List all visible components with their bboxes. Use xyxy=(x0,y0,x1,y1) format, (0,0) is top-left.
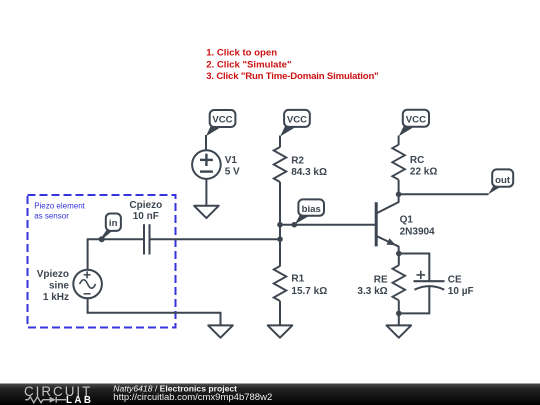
wire emitter to RE xyxy=(398,254,400,266)
svg-text:2N3904: 2N3904 xyxy=(400,226,435,237)
capacitor Cpiezo xyxy=(144,224,150,254)
logo resistor-diode glyph xyxy=(25,397,66,403)
wire Vpiezo to bottom xyxy=(87,298,89,313)
footer bar xyxy=(0,384,540,405)
wire collector lead xyxy=(398,194,400,202)
svg-text:LAB: LAB xyxy=(66,395,93,405)
svg-text:in: in xyxy=(109,218,118,229)
voltage source Vpiezo xyxy=(73,270,102,299)
svg-text:R1: R1 xyxy=(291,274,304,285)
resistor R1 xyxy=(274,266,287,301)
wire RE to bottom node xyxy=(398,300,400,313)
wire Cpiezo to junction xyxy=(150,238,281,240)
svg-text:CE: CE xyxy=(448,274,462,285)
svg-text:Vpiezo: Vpiezo xyxy=(37,269,69,280)
svg-text:2. Click "Simulate": 2. Click "Simulate" xyxy=(206,59,291,70)
wire RC to collector node xyxy=(398,180,400,195)
bias flag xyxy=(295,199,324,224)
wire bottom of piezo xyxy=(87,312,221,314)
wire in node to Cpiezo xyxy=(88,238,144,240)
resistor RC xyxy=(392,145,405,180)
wire R1 to ground xyxy=(279,301,281,326)
wire VCC flag to V1 xyxy=(205,135,207,150)
wire VCC flag to R2 xyxy=(279,136,281,148)
svg-text:bias: bias xyxy=(302,204,321,215)
wire bottom node to ground xyxy=(398,313,400,326)
capacitor CE xyxy=(414,271,445,290)
wire in node down to Vpiezo xyxy=(87,238,89,269)
wire to piezo ground xyxy=(220,312,222,326)
note: red instructions xyxy=(206,48,378,82)
svg-text:out: out xyxy=(495,175,511,186)
transistor Q1 xyxy=(376,202,399,247)
svg-text:10 nF: 10 nF xyxy=(133,211,159,222)
VCC flag (above R2) xyxy=(280,110,310,137)
wire V1 to ground xyxy=(205,179,207,207)
in flag xyxy=(101,214,121,240)
svg-text:V1: V1 xyxy=(225,155,238,166)
label Q1 value xyxy=(400,215,435,238)
label V1 value xyxy=(225,155,240,178)
wire CE to bottom node xyxy=(399,287,430,314)
ground (below V1) xyxy=(194,206,219,218)
svg-text:VCC: VCC xyxy=(406,115,426,126)
svg-text:VCC: VCC xyxy=(212,115,232,126)
label Vpiezo value xyxy=(37,269,70,303)
svg-text:Cpiezo: Cpiezo xyxy=(129,200,162,211)
svg-text:3.3 kΩ: 3.3 kΩ xyxy=(357,286,387,297)
label CE value xyxy=(448,274,474,297)
label RE value xyxy=(357,274,388,297)
svg-text:5 V: 5 V xyxy=(225,167,240,178)
svg-text:VCC: VCC xyxy=(287,115,307,126)
resistor RE xyxy=(393,265,406,300)
wire down to R1 xyxy=(279,239,281,266)
out flag xyxy=(488,169,513,194)
resistor R2 xyxy=(274,147,287,182)
junction dot (Cpiezo wire) xyxy=(277,236,283,242)
junction dot (collector) xyxy=(396,192,402,198)
svg-text:http://circuitlab.com/cmx9mp4b: http://circuitlab.com/cmx9mp4b788w2 xyxy=(113,392,272,403)
svg-text:R2: R2 xyxy=(291,155,304,166)
wire R2 to bias junction xyxy=(279,182,281,225)
svg-text:22 kΩ: 22 kΩ xyxy=(410,167,437,178)
label Cpiezo value xyxy=(129,200,162,222)
label RC value xyxy=(410,155,437,178)
wire VCC flag to RC xyxy=(398,136,400,146)
VCC flag (above RC) xyxy=(399,110,429,137)
svg-text:sine: sine xyxy=(49,280,69,291)
junction dot (in flag) xyxy=(99,236,105,242)
svg-text:1. Click to open: 1. Click to open xyxy=(206,48,277,59)
svg-text:3. Click "Run Time-Domain Simu: 3. Click "Run Time-Domain Simulation" xyxy=(206,71,378,82)
ground (below RE) xyxy=(387,325,412,337)
svg-text:Q1: Q1 xyxy=(400,215,414,226)
svg-text:10 µF: 10 µF xyxy=(448,286,474,297)
svg-text:1 kHz: 1 kHz xyxy=(43,292,69,303)
label R2 value xyxy=(291,155,327,178)
svg-text:Piezo element: Piezo element xyxy=(34,202,85,211)
ground (piezo) xyxy=(208,325,233,337)
ground (below R1) xyxy=(268,325,293,337)
VCC flag (above V1) xyxy=(206,110,236,136)
wire bias junction to Cpiezo junction xyxy=(279,225,281,240)
voltage source V1 xyxy=(192,150,221,179)
junction dot (bias flag) xyxy=(292,222,298,228)
junction dot (emitter) xyxy=(396,251,402,257)
junction dot (bottom node) xyxy=(396,311,402,317)
svg-text:RE: RE xyxy=(374,274,388,285)
label R1 value xyxy=(291,274,327,297)
junction dot (R2/bias) xyxy=(277,222,283,228)
svg-text:as sensor: as sensor xyxy=(34,211,69,220)
annotation box: Piezo element as sensor xyxy=(28,195,176,328)
wire emitter lead xyxy=(398,246,400,254)
wire out xyxy=(399,193,489,195)
wire bias to base xyxy=(280,224,376,226)
svg-text:15.7 kΩ: 15.7 kΩ xyxy=(291,286,327,297)
wire emitter node to CE xyxy=(399,254,430,282)
svg-text:84.3 kΩ: 84.3 kΩ xyxy=(291,167,327,178)
svg-text:RC: RC xyxy=(410,155,424,166)
